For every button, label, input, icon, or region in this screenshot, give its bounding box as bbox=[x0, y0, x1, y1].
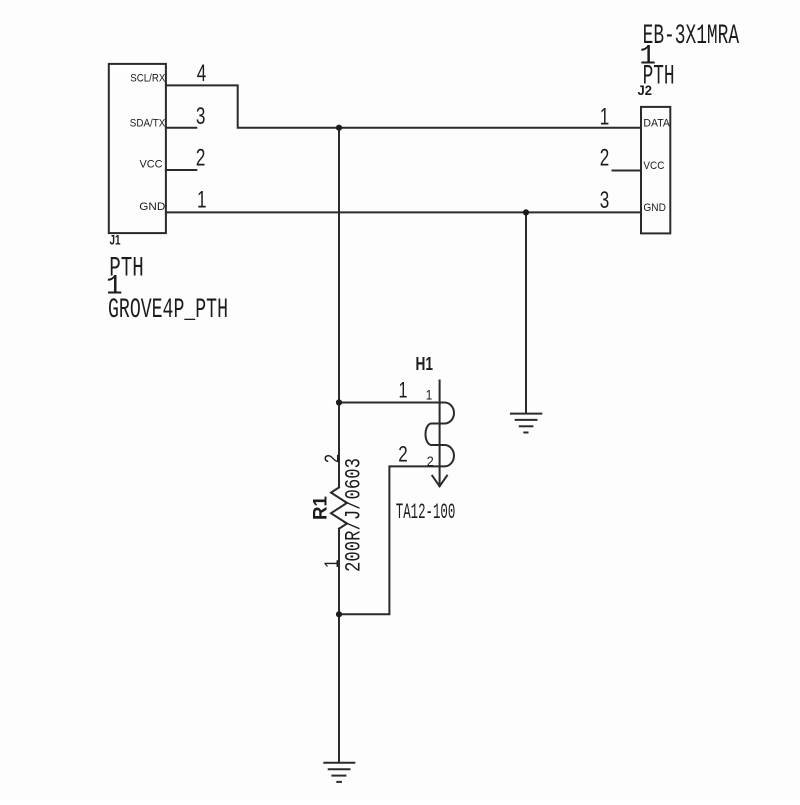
connector J1 box bbox=[109, 64, 166, 233]
svg-text:DATA: DATA bbox=[643, 117, 670, 129]
svg-text:TA12-100: TA12-100 bbox=[396, 500, 456, 525]
svg-text:J2: J2 bbox=[638, 82, 653, 98]
svg-text:J1: J1 bbox=[110, 232, 121, 248]
junction node GND/x526 bbox=[523, 209, 529, 215]
svg-text:EB-3X1MRA: EB-3X1MRA bbox=[643, 21, 740, 52]
ground symbol bottom bbox=[324, 763, 354, 782]
wire H1 pin1 + coil + pin2 return bbox=[339, 403, 454, 615]
connector J2 box bbox=[641, 107, 670, 233]
wire GND drop to ground bbox=[525, 212, 527, 413]
svg-text:2: 2 bbox=[600, 145, 610, 172]
svg-text:3: 3 bbox=[196, 103, 206, 130]
wire pin4 SCL/RX net to J2 DATA bbox=[166, 85, 641, 127]
svg-text:R1: R1 bbox=[311, 496, 332, 520]
svg-text:2: 2 bbox=[322, 454, 344, 463]
wire vertical net x339 upper bbox=[338, 128, 340, 488]
svg-text:GND: GND bbox=[139, 201, 165, 213]
svg-text:1: 1 bbox=[197, 187, 207, 214]
svg-text:GND: GND bbox=[643, 202, 666, 214]
svg-text:3: 3 bbox=[600, 187, 610, 214]
wire vertical net x339 lower bbox=[338, 529, 340, 763]
svg-text:GROVE4P_PTH: GROVE4P_PTH bbox=[108, 295, 228, 326]
wire pin2 VCC stub J1 bbox=[166, 169, 196, 171]
svg-text:2: 2 bbox=[196, 145, 206, 172]
wire GND net J1 to J2 bbox=[166, 211, 641, 213]
svg-text:H1: H1 bbox=[416, 354, 434, 374]
H1 arrowhead bbox=[432, 476, 447, 487]
wire pin3 SDA/TX stub bbox=[166, 127, 196, 129]
svg-text:SDA/TX: SDA/TX bbox=[130, 117, 166, 129]
svg-text:2: 2 bbox=[398, 442, 408, 467]
ground symbol right bbox=[511, 414, 541, 433]
junction node H1 pin1 bbox=[336, 399, 342, 405]
svg-text:2: 2 bbox=[427, 453, 434, 469]
svg-text:200R/J/0603: 200R/J/0603 bbox=[342, 458, 367, 572]
junction node H1 pin2 bbox=[336, 611, 342, 617]
svg-text:1: 1 bbox=[426, 387, 433, 403]
svg-text:1: 1 bbox=[322, 560, 343, 569]
svg-text:1: 1 bbox=[600, 103, 610, 130]
svg-text:SCL/RX: SCL/RX bbox=[130, 73, 166, 85]
H1 arrow line bbox=[439, 381, 441, 487]
svg-text:4: 4 bbox=[197, 60, 207, 87]
wire VCC stub J2 bbox=[613, 170, 642, 172]
svg-text:VCC: VCC bbox=[140, 158, 163, 170]
junction node net1/x339 bbox=[336, 125, 342, 131]
svg-text:VCC: VCC bbox=[643, 160, 664, 172]
resistor R1 zigzag bbox=[331, 487, 347, 528]
svg-text:1: 1 bbox=[399, 378, 408, 403]
